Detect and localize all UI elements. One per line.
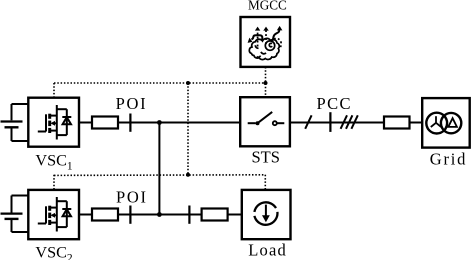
breaker tick POI upper	[129, 114, 131, 132]
wire STS to Grid	[290, 122, 422, 124]
slash marks triple (PCC line)	[341, 115, 358, 129]
wire vertical bus joining upper and lower feeders	[158, 123, 160, 215]
brain inner bump bottom-left	[257, 56, 261, 58]
svg-text:POI: POI	[116, 187, 148, 206]
wire VSC2 output to Load	[79, 214, 242, 216]
switch S1 inside STS	[248, 112, 285, 125]
MGCC box	[241, 17, 291, 67]
solid curl arrow left (brain)	[251, 35, 262, 41]
dashed control vertical mid	[187, 83, 189, 175]
node dot dashed junction lower mid	[186, 173, 190, 177]
MGCC brain icon	[248, 26, 283, 60]
resistor R2 (grid impedance)	[384, 117, 410, 129]
dashed arc right (brain)	[274, 39, 281, 49]
resistor R1 (upper feeder impedance)	[92, 117, 118, 129]
resistor R4 (load impedance)	[202, 209, 228, 221]
resistor R3 (lower feeder impedance)	[92, 209, 118, 221]
brain inner arc left	[255, 45, 258, 48]
DC source E1 battery	[1, 104, 30, 141]
load symbol (circle with down arrow)	[254, 202, 277, 224]
brain inner squiggle in lobe	[269, 43, 272, 46]
brain cloud body	[249, 38, 279, 59]
converter box VSC1	[28, 98, 79, 147]
dashed control bus lower horizontal	[54, 174, 265, 177]
dashed up arrow middle (brain)	[265, 31, 267, 45]
breaker tick PCC	[329, 112, 331, 132]
dashed control bus upper horizontal	[54, 82, 266, 84]
svg-text:PCC: PCC	[317, 94, 352, 113]
breaker tick lower feeder right	[188, 206, 190, 224]
svg-text:Load: Load	[248, 241, 287, 260]
svg-text:Grid: Grid	[430, 149, 467, 168]
svg-text:MGCC: MGCC	[248, 0, 287, 13]
svg-text:STS: STS	[251, 147, 279, 166]
slash mark single (PCC line)	[305, 115, 311, 129]
solid S-curve arrow right (brain)	[271, 30, 279, 42]
svg-text:POI: POI	[116, 94, 148, 113]
breaker tick POI lower	[129, 206, 131, 224]
Grid box	[422, 98, 470, 148]
dashed control drop to Load	[264, 175, 266, 190]
converter box VSC2	[28, 190, 79, 239]
wire VSC1 output to STS	[79, 122, 240, 124]
dashed up arrow left (brain)	[257, 31, 259, 47]
transistor Q1 with diode D1 (IGBT icon inside VSC1)	[38, 105, 72, 140]
node dot dashed junction upper mid	[186, 81, 190, 85]
transistor Q2 with diode D2 (IGBT icon inside VSC2)	[38, 197, 72, 232]
node dot dashed junction upper right	[264, 81, 268, 85]
Load box	[242, 190, 291, 239]
node junction dot upper feeder	[157, 120, 162, 125]
dashed control line MGCC to STS	[265, 67, 267, 97]
dashed control drop to VSC2	[53, 175, 55, 190]
DC source E2 battery	[1, 196, 30, 233]
brain right lobe circle	[265, 41, 274, 50]
transformer T1 (grid symbol)	[426, 113, 461, 134]
node junction dot lower feeder	[157, 212, 162, 217]
dashed control drop to VSC1	[53, 83, 55, 98]
STS box	[240, 97, 290, 146]
brain inner arc lower	[261, 52, 266, 54]
